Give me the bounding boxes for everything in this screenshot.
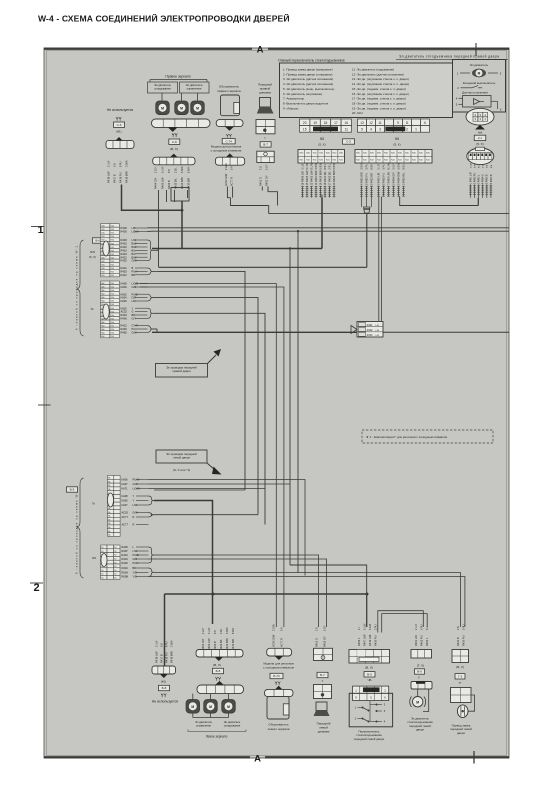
svg-text:2 G/W: 2 G/W <box>225 162 228 170</box>
speaker bottom terminal box <box>314 648 333 660</box>
svg-text:(В, Х): (В, Х) <box>213 663 221 667</box>
svg-text:(В, Х): (В, Х) <box>170 147 178 151</box>
svg-text:М: М <box>161 106 164 110</box>
wire bus mirror-to-switch y267 <box>159 266 367 268</box>
svg-text:8 B: 8 B <box>214 630 217 634</box>
svg-text:2: 2 <box>406 128 408 132</box>
position sensor box <box>463 96 492 108</box>
svg-text:(S, Х или *1): (S, Х или *1) <box>173 468 190 472</box>
svg-text:2 B/L: 2 B/L <box>175 167 178 173</box>
heater bottom body <box>267 697 289 719</box>
heater wires step to bus <box>227 187 230 198</box>
bracket rows 10-12 upper <box>148 268 154 275</box>
svg-text:1 R401 L/R: 1 R401 L/R <box>470 172 472 184</box>
svg-text:4 R421 B/R: 4 R421 B/R <box>359 172 363 185</box>
svg-text:5 GY: 5 GY <box>323 625 326 631</box>
heater YV <box>226 134 228 136</box>
wire: R405 bus connect <box>148 230 153 232</box>
svg-text:18 -Эл.дв. (подним. стекла з.: 18 -Эл.дв. (подним. стекла з. п. двери) <box>352 101 406 105</box>
svg-text:19 R416 B/W: 19 R416 B/W <box>318 170 322 186</box>
svg-text:R: R <box>133 515 135 519</box>
svg-text:8 B: 8 B <box>491 164 493 168</box>
svg-text:R451 G: R451 G <box>259 177 263 186</box>
connector C (door side oval) <box>467 148 494 165</box>
svg-text:5 L/W: 5 L/W <box>161 166 164 173</box>
svg-text:R417 B: R417 B <box>112 174 116 183</box>
connector B wire right branch <box>400 197 479 206</box>
svg-text:9 R401 L/R: 9 R401 L/R <box>376 172 380 185</box>
svg-text:Датчик положения: Датчик положения <box>462 91 488 95</box>
lower stack keyway oval group1 <box>108 493 114 507</box>
svg-text:5 L/W: 5 L/W <box>306 162 309 169</box>
svg-text:BR: BR <box>132 313 136 317</box>
wire bus thick join line y248 <box>152 248 322 250</box>
reference box B-73 heater bottom <box>270 673 283 678</box>
svg-text:5 B: 5 B <box>487 164 489 168</box>
svg-text:В-7: В-7 <box>263 143 268 147</box>
svg-text:(5, Х): (5, Х) <box>89 255 96 259</box>
svg-text:R417 B: R417 B <box>159 654 163 663</box>
arrow label: front right door wiring <box>156 364 208 378</box>
svg-text:R419 G/B: R419 G/B <box>368 634 372 646</box>
svg-text:BR: BR <box>133 566 137 570</box>
bracket KA02-06 <box>148 294 154 301</box>
svg-text:★ 1 : Комплектация Г для реги: ★ 1 : Комплектация Г для регионов с холо… <box>366 435 447 439</box>
svg-text:Б-73: Б-73 <box>273 674 280 678</box>
svg-text:8 -Выключатель двери водителя: 8 -Выключатель двери водителя <box>283 101 329 105</box>
svg-text:6: 6 <box>424 121 426 125</box>
connector B (harness side, middle) <box>355 150 432 164</box>
svg-text:Эл.двигатель: Эл.двигатель <box>470 63 489 67</box>
wire KA08 to heater drop <box>140 284 276 517</box>
svg-text:АС77: АС77 <box>122 515 129 519</box>
svg-text:R40: R40 <box>111 336 114 338</box>
svg-text:КА07: КА07 <box>122 482 129 486</box>
svg-text:R456: R456 <box>121 331 128 335</box>
connector B splice <box>364 207 371 213</box>
svg-text:2 B/L: 2 B/L <box>220 628 223 634</box>
svg-text:управления: управления <box>187 87 202 90</box>
heater bottom resistor <box>283 704 289 715</box>
svg-text:м: м <box>459 681 461 685</box>
svg-text:(#1): (#1) <box>116 130 121 134</box>
svg-text:С-74: С-74 <box>225 139 232 143</box>
svg-text:R452 GY: R452 GY <box>322 636 326 647</box>
frame bottom thick edge <box>44 756 250 758</box>
svg-text:20: 20 <box>303 121 307 125</box>
reference box B-63 <box>93 238 105 243</box>
svg-text:3 -Эл.двигатель (датчик положе: 3 -Эл.двигатель (датчик положения) <box>283 77 333 81</box>
reference box D-8 (mirror) <box>169 139 180 144</box>
svg-text:Б-8: Б-8 <box>162 686 167 690</box>
motor M right door <box>472 69 486 77</box>
svg-text:20 R422 B/W: 20 R422 B/W <box>332 170 336 186</box>
svg-text:R416: R416 <box>121 245 128 249</box>
reference box C-6 <box>114 122 125 127</box>
bracket rows 3-9 upper <box>148 240 154 261</box>
svg-text:8 B/R: 8 B/R <box>188 167 191 173</box>
svg-text:АС77 R: АС77 R <box>279 638 283 647</box>
connector A drop wire <box>321 195 323 198</box>
svg-text:5 B/W: 5 B/W <box>319 162 322 169</box>
mirror YV mark <box>172 133 174 135</box>
svg-text:Не используется: Не используется <box>152 700 178 704</box>
lower stack row stubs <box>136 479 149 481</box>
svg-text:2-х: 2-х <box>478 136 483 140</box>
frame inner line <box>47 51 507 756</box>
heater feed corners <box>275 517 277 627</box>
svg-text:(В, Х): (В, Х) <box>365 666 373 670</box>
svg-text:4 -Эл.двигатель (датчик положе: 4 -Эл.двигатель (датчик положения) <box>283 82 333 86</box>
reference box B-9 lower <box>67 487 78 492</box>
svg-text:8 R402 PU: 8 R402 PU <box>381 173 385 186</box>
svg-text:4: 4 <box>370 128 372 132</box>
svg-text:АС92: АС92 <box>122 511 129 515</box>
wire: R406 bus connect <box>148 227 153 229</box>
svg-text:2 G/Y: 2 G/Y <box>202 627 205 634</box>
svg-text:Не используется: Не используется <box>107 108 133 112</box>
svg-text:2 B/R: 2 B/R <box>360 163 363 169</box>
svg-text:18 R410 B/L: 18 R410 B/L <box>323 171 327 186</box>
arrow label: front left door wiring <box>156 450 207 463</box>
svg-text:К главной эл.проводке на схеме: К главной эл.проводке на схеме W-1 <box>75 245 79 330</box>
svg-text:3: 3 <box>379 128 381 132</box>
svg-text:16 -Эл.дв. (опускание стекла з: 16 -Эл.дв. (опускание стекла з. п. двери… <box>352 92 409 96</box>
svg-text:А: А <box>254 754 261 765</box>
svg-text:R406: R406 <box>122 545 129 549</box>
svg-text:R406 L: R406 L <box>357 637 361 646</box>
svg-text:5 R404 G/Y: 5 R404 G/Y <box>391 172 395 186</box>
svg-text:11: 11 <box>378 121 382 125</box>
wire KA09 to heater drop <box>140 287 284 526</box>
svg-text:6 R410 B: 6 R410 B <box>491 174 493 184</box>
svg-text:2 B/W: 2 B/W <box>170 640 173 647</box>
svg-text:R406: R406 <box>121 226 128 230</box>
svg-text:R404 G/Y: R404 G/Y <box>201 638 205 650</box>
svg-text:Левое зеркало: Левое зеркало <box>206 735 228 739</box>
svg-text:2 G/W: 2 G/W <box>272 623 275 631</box>
heater bottom harness connector <box>267 648 292 656</box>
svg-text:11 R415 B/W: 11 R415 B/W <box>314 170 318 186</box>
svg-text:(Т, Х): (Т, Х) <box>417 664 424 668</box>
connector A (harness side, left) <box>298 150 345 164</box>
mirror splice box <box>171 188 189 202</box>
svg-text:К главной эл.проводке на схеме: К главной эл.проводке на схеме W-1 <box>75 489 79 574</box>
svg-text:R422 B/W: R422 B/W <box>225 638 229 650</box>
svg-text:ЧБ: ЧБ <box>368 678 372 682</box>
connector B spliced wire down <box>366 213 368 267</box>
svg-text:АС92 G/W: АС92 G/W <box>224 173 228 186</box>
speaker wires step to bus <box>261 187 263 191</box>
reference box B-7 speaker bottom <box>317 672 328 677</box>
svg-text:передней левой двери: передней левой двери <box>354 737 385 741</box>
svg-text:5 PU: 5 PU <box>365 164 368 170</box>
svg-text:2 L/W: 2 L/W <box>155 640 158 647</box>
svg-text:2 G/Y: 2 G/Y <box>155 166 158 173</box>
left margin marker 2 <box>30 582 43 584</box>
svg-text:(5, Х): (5, Х) <box>393 142 400 146</box>
svg-text:двери: двери <box>457 731 465 735</box>
svg-text:R410 B/R: R410 B/R <box>231 639 235 650</box>
svg-text:левой двери: левой двери <box>173 456 190 460</box>
svg-text:2 L/R: 2 L/R <box>415 624 418 630</box>
svg-text:КА05: КА05 <box>122 499 129 503</box>
mirror assembly connector <box>152 119 211 127</box>
svg-text:1 -Привод замка двери (запиран: 1 -Привод замка двери (запирание) <box>283 68 333 72</box>
svg-text:КА02: КА02 <box>121 292 128 296</box>
svg-text:(В, Х): (В, Х) <box>456 665 464 669</box>
motor bottom bar connector <box>411 682 432 690</box>
mirror adjust motors label <box>180 82 210 93</box>
svg-text:динамик: динамик <box>259 90 271 94</box>
wire bracket AC52 output down x265 <box>153 313 265 524</box>
thick mirror wire x212 <box>212 594 214 624</box>
svg-text:КА0: КА0 <box>101 335 104 338</box>
svg-text:2 B/W: 2 B/W <box>315 162 318 169</box>
svg-text:7 -Аккумулятор: 7 -Аккумулятор <box>283 97 305 101</box>
wire from not-used connector <box>122 185 182 211</box>
svg-text:8 B/L: 8 B/L <box>324 163 327 169</box>
svg-text:5 B/W: 5 B/W <box>181 166 184 173</box>
svg-text:N5: N5 <box>320 137 324 141</box>
svg-text:складывания: складывания <box>224 725 241 728</box>
svg-text:R423 B/L: R423 B/L <box>219 639 223 650</box>
svg-text:(#1): (#1) <box>161 680 166 684</box>
svg-text:КА07: КА07 <box>122 503 129 507</box>
wire down x298 from R405 bus <box>297 231 299 572</box>
upper stack pin cells group2 <box>101 281 110 285</box>
svg-text:L/B: L/B <box>376 335 380 337</box>
connector C wire to bus <box>477 198 479 206</box>
svg-text:Эл.двигатели: Эл.двигатели <box>186 83 203 87</box>
speaker bottom box with dot <box>314 685 332 699</box>
svg-text:R420: R420 <box>122 561 129 565</box>
svg-text:8: 8 <box>406 121 408 125</box>
reference box 2-x <box>474 135 486 140</box>
svg-text:2 B/W: 2 B/W <box>125 160 128 167</box>
tick bottom frame <box>473 751 475 764</box>
left mirror motor bus <box>192 713 194 717</box>
svg-text:9 -«Масса»: 9 -«Масса» <box>283 106 299 110</box>
wire bus R406 L/B (full width) <box>152 227 509 229</box>
switch box header pins <box>353 686 389 700</box>
connector A bundle <box>302 186 304 198</box>
svg-text:R451 G: R451 G <box>314 638 318 647</box>
svg-text:КА08: КА08 <box>121 282 128 286</box>
junction x367 to switch <box>366 593 369 596</box>
svg-text:2 G: 2 G <box>483 164 485 168</box>
wire bracket KA02 output down x258 <box>153 298 258 513</box>
svg-text:2 B: 2 B <box>457 626 460 630</box>
wire y250 bus down x290 <box>289 249 291 566</box>
svg-text:R60В: R60В <box>122 575 129 579</box>
wire KA06 to x290 drop (switch) <box>149 480 306 576</box>
svg-text:Y: Y <box>132 306 134 310</box>
connector B bundle group1 <box>361 186 363 207</box>
svg-text:8 G/B: 8 G/B <box>369 623 372 630</box>
speaker bottom icon <box>316 702 327 711</box>
wire bracket outputs (upper stack) <box>153 249 158 251</box>
svg-text:Эл.двигатели: Эл.двигатели <box>195 720 212 724</box>
svg-text:Эл.двигатель: Эл.двигатель <box>224 720 241 724</box>
svg-text:R452 GY: R452 GY <box>264 175 268 186</box>
svg-text:5 -Эл.двигатель (конц. выключа: 5 -Эл.двигатель (конц. выключатель) <box>283 87 334 91</box>
wire KA07 long right <box>149 483 291 485</box>
svg-text:PU: PU <box>132 327 136 331</box>
svg-text:W-4 - СХЕМА СОЕДИНЕНИЙ ЭЛЕКТРО: W-4 - СХЕМА СОЕДИНЕНИЙ ЭЛЕКТРОПРОВОДКИ Д… <box>38 13 290 24</box>
mirror motor M1 <box>161 93 163 101</box>
svg-text:2 -Привод замка двери (отпиран: 2 -Привод замка двери (отпирание) <box>283 72 333 76</box>
svg-text:16: 16 <box>345 121 349 125</box>
svg-text:М: М <box>478 71 481 75</box>
wire from splice down <box>181 201 183 249</box>
svg-text:с холодным климатом: с холодным климатом <box>211 148 242 152</box>
svg-text:5 B/W: 5 B/W <box>226 627 229 634</box>
svg-text:2 L/W: 2 L/W <box>107 160 110 167</box>
svg-text:R416 B/W: R416 B/W <box>169 651 173 663</box>
svg-text:правой двери: правой двери <box>172 369 191 373</box>
note box: cold climate option <box>362 430 493 443</box>
heater connector <box>216 120 243 127</box>
reference box C-5 <box>343 139 355 144</box>
switch box body with contacts <box>349 693 392 727</box>
svg-text:В-9: В-9 <box>367 672 372 676</box>
svg-text:У: У <box>418 676 420 680</box>
svg-text:складывания: складывания <box>154 87 171 90</box>
svg-text:АС92 G/W: АС92 G/W <box>271 634 275 647</box>
bracket lower AC block <box>149 513 155 518</box>
svg-text:2 L/R: 2 L/R <box>377 163 380 169</box>
upper stack row stubs <box>135 227 148 229</box>
wire bus through R-40 to frame edge <box>152 331 357 333</box>
svg-text:КА09: КА09 <box>121 285 128 289</box>
left mirror harness connector <box>196 650 243 658</box>
svg-text:М: М <box>196 106 199 110</box>
svg-text:19: 19 <box>313 121 317 125</box>
svg-text:R412: R412 <box>121 273 128 277</box>
svg-text:с холодным климатом: с холодным климатом <box>263 665 294 669</box>
svg-text:2 L/B: 2 L/B <box>301 163 304 169</box>
svg-text:N/S: N/S <box>90 250 95 254</box>
svg-text:R40: R40 <box>101 275 104 277</box>
svg-text:14 -Эл.дв. (опускание стекла п: 14 -Эл.дв. (опускание стекла п. л. двери… <box>352 82 409 86</box>
wire bracket R4 block to speaker pair <box>154 555 319 627</box>
svg-text:R410: R410 <box>121 249 128 253</box>
svg-text:2 G: 2 G <box>260 166 263 170</box>
svg-text:5 B/W: 5 B/W <box>333 162 336 169</box>
svg-text:R403 L: R403 L <box>425 637 429 646</box>
reference box lock bottom <box>455 674 465 679</box>
speaker icon <box>260 98 271 108</box>
wire bracket AC output <box>154 514 258 516</box>
svg-text:R409 B: R409 B <box>213 641 217 650</box>
svg-text:Г-3: Г-3 <box>458 674 463 678</box>
bracket lower R4 block <box>149 547 155 563</box>
mirror motor M3 <box>197 93 199 101</box>
svg-text:19 -Эл.дв. (подним. стекла п.: 19 -Эл.дв. (подним. стекла п. п. двери) <box>352 106 406 110</box>
svg-text:Y: Y <box>133 494 135 498</box>
svg-text:B: B <box>132 266 134 270</box>
wire x245 to thick KA Y bus <box>154 489 245 491</box>
svg-text:R403 L/W: R403 L/W <box>207 638 211 650</box>
mirror harness connector <box>170 154 179 158</box>
svg-text:R60А: R60А <box>122 571 129 575</box>
svg-text:правого зеркала: правого зеркала <box>217 89 241 93</box>
svg-text:R415: R415 <box>121 242 128 246</box>
speaker harness connector <box>257 151 274 162</box>
wire KA71 right <box>149 488 266 490</box>
svg-text:13 -Эл.дв. (опускание стекла з: 13 -Эл.дв. (опускание стекла з. л. двери… <box>352 77 409 81</box>
left frame tick mid <box>38 404 51 406</box>
svg-text:15 R405 L/W: 15 R405 L/W <box>305 170 309 185</box>
svg-text:В-9: В-9 <box>417 670 422 674</box>
svg-text:управления: управления <box>196 725 211 728</box>
svg-text:R404 G/Y: R404 G/Y <box>154 177 158 189</box>
svg-text:17 R423 B/L: 17 R423 B/L <box>327 171 331 186</box>
reference box B-7 (speaker) <box>260 142 271 147</box>
svg-text:М: М <box>416 700 419 704</box>
svg-text:8 B/R: 8 B/R <box>232 628 235 634</box>
wire y271 output down x245 <box>158 271 245 490</box>
svg-text:8 PU: 8 PU <box>165 641 168 647</box>
svg-text:R418 L/W: R418 L/W <box>154 651 158 663</box>
svg-text:5 PU: 5 PU <box>462 624 465 630</box>
upper stack keyway oval group1 <box>103 241 109 256</box>
svg-text:R407: R407 <box>122 549 129 553</box>
arrow to top right <box>208 355 217 364</box>
svg-text:R405: R405 <box>121 230 128 234</box>
svg-text:Б-7: Б-7 <box>320 673 325 677</box>
svg-text:А: А <box>257 45 264 56</box>
svg-text:левого зеркала: левого зеркала <box>268 727 290 731</box>
switch bottom connector <box>349 650 390 664</box>
svg-text:КА04: КА04 <box>121 296 128 300</box>
svg-text:R4: R4 <box>114 578 116 580</box>
mirror motor M2 <box>181 93 183 101</box>
svg-text:5 B/W: 5 B/W <box>397 162 400 169</box>
svg-text:R410: R410 <box>122 553 129 557</box>
svg-text:5 R409 B: 5 R409 B <box>487 174 489 184</box>
svg-text:3 R409 B/W: 3 R409 B/W <box>396 171 400 185</box>
lock bottom connector <box>452 650 469 663</box>
connector B bundle group2 <box>378 186 380 197</box>
U-loop bridge switch-motor <box>378 611 424 633</box>
svg-text:R407 L/W: R407 L/W <box>362 634 366 646</box>
lock actuator motor <box>457 705 468 718</box>
svg-text:2 PU: 2 PU <box>374 624 377 630</box>
svg-text:R402: R402 <box>121 327 128 331</box>
svg-text:5 GY: 5 GY <box>265 164 268 170</box>
svg-text:12 -Эл.двигатель (датчик полож: 12 -Эл.двигатель (датчик положения) <box>352 72 404 76</box>
arrow to bottom right <box>207 463 215 470</box>
svg-text:5 L/W: 5 L/W <box>363 623 366 630</box>
svg-text:5 B: 5 B <box>160 643 163 647</box>
svg-text:2 L/R: 2 L/R <box>470 162 472 168</box>
svg-text:КА06: КА06 <box>122 478 129 482</box>
svg-text:С-5: С-5 <box>346 140 351 144</box>
connector B pair to door connector R-40 <box>378 197 380 322</box>
svg-text:R402 PU: R402 PU <box>419 635 423 646</box>
svg-text:6 -Эл.двигатель (опускание): 6 -Эл.двигатель (опускание) <box>283 92 322 96</box>
svg-text:18: 18 <box>324 121 328 125</box>
svg-text:(5, Х): (5, Х) <box>318 142 325 146</box>
heater resistor element <box>234 102 240 113</box>
svg-text:1: 1 <box>38 224 44 236</box>
svg-text:3 R420 PU: 3 R420 PU <box>364 173 368 186</box>
svg-text:11 -Эл.двигатель (подымание): 11 -Эл.двигатель (подымание) <box>352 68 394 72</box>
svg-text:М: М <box>191 705 194 709</box>
svg-text:R421 B: R421 B <box>456 637 460 646</box>
